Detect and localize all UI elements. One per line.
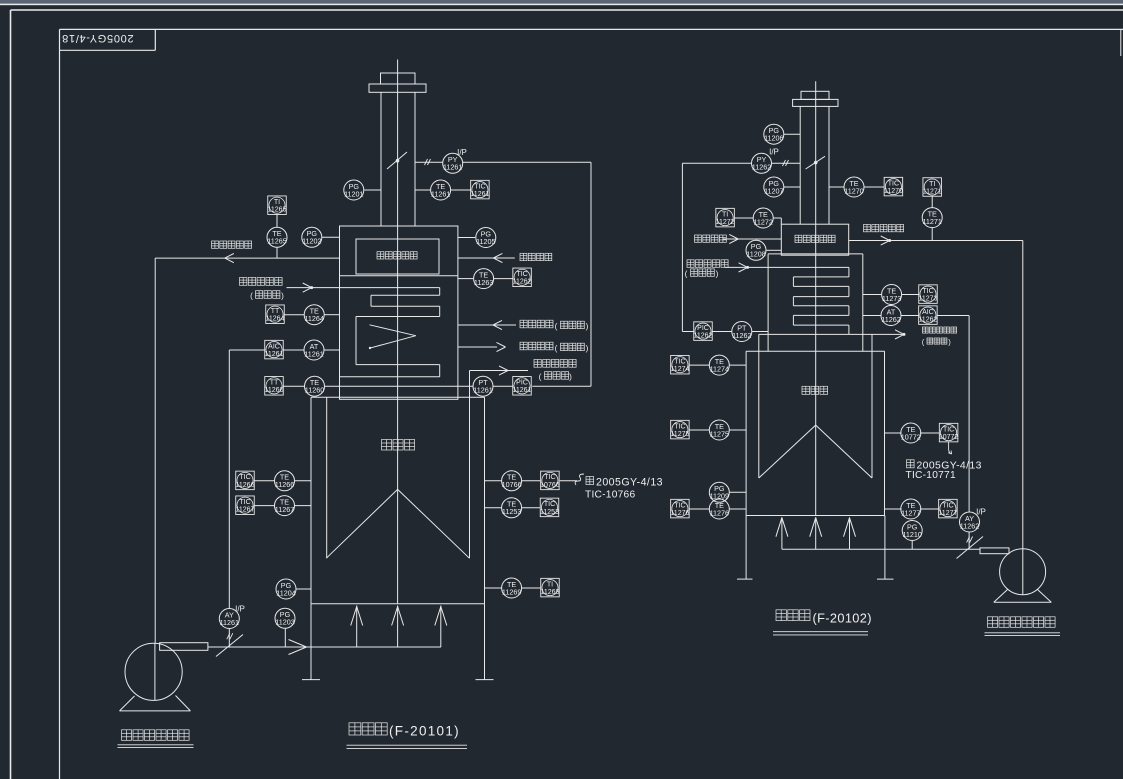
label four passes right outlet: [922, 338, 952, 347]
svg-text:TIC: TIC: [516, 271, 527, 278]
right rows TE-10766/TIC-10766 with note: [485, 474, 585, 485]
PG-11205 line: [458, 237, 475, 239]
svg-text:11262: 11262: [513, 279, 532, 286]
svg-text:11264: 11264: [266, 316, 285, 323]
row TE-11273 / TIC-11273: [863, 294, 919, 296]
instrument TE-11253: [502, 498, 522, 518]
F-20102 radiant box outer walls: [746, 351, 885, 515]
svg-text:2005GY-4/13: 2005GY-4/13: [596, 477, 663, 489]
instrument TI-11272 (panel): [716, 208, 735, 227]
svg-text:11261: 11261: [265, 351, 284, 358]
svg-text:TIC: TIC: [922, 288, 933, 295]
stem TI-11265 to TE-11265: [276, 215, 278, 228]
F-20101 radiant box outer walls: [311, 397, 485, 604]
svg-text:11267: 11267: [236, 507, 255, 514]
svg-text:): ): [586, 344, 589, 353]
row AIC-11261 / AT-11261 with branch to AY-11261: [229, 350, 339, 609]
svg-text:): ): [281, 292, 284, 301]
instrument PIC-11262 (panel): [694, 322, 713, 341]
svg-text:TI: TI: [929, 181, 935, 188]
radiant zigzag coil F-20101: [369, 325, 416, 349]
burner arrows under floor F-20101: [351, 606, 447, 648]
F-20102 convection box: [768, 254, 863, 351]
instrument TI-11265 (panel): [268, 196, 287, 215]
svg-text:11273: 11273: [919, 296, 938, 303]
raw oil outlet pipe arrow right: [470, 366, 529, 375]
svg-text:10766: 10766: [540, 482, 560, 489]
svg-text:11210: 11210: [902, 530, 921, 539]
instrument PT-11261: [473, 376, 493, 396]
svg-text:TIC-10771: TIC-10771: [906, 470, 956, 481]
radiant V flame pattern F-20101: [326, 489, 469, 558]
instrument TE-11266: [275, 471, 295, 491]
F-20101 radiant inner left wall: [326, 397, 328, 558]
label F-20101 fan (chang ya lu yin feng ji): [118, 730, 194, 748]
F-20102 stack flange: [793, 99, 838, 106]
svg-text:11261: 11261: [304, 349, 323, 358]
instrument PG-11205: [476, 228, 496, 248]
svg-text:(: (: [539, 373, 542, 382]
svg-text:11270: 11270: [844, 186, 863, 195]
svg-text:11277: 11277: [938, 510, 957, 517]
svg-text:11262: 11262: [918, 317, 937, 324]
instrument TE-11261: [431, 180, 451, 200]
svg-text:(: (: [685, 270, 688, 279]
svg-text:11276: 11276: [710, 508, 729, 517]
svg-text:11262: 11262: [694, 333, 713, 340]
line stack to TE-11261: [415, 189, 430, 191]
svg-text:(F-20101): (F-20101): [389, 724, 460, 739]
burner air duct under F-20101: [208, 640, 441, 655]
AY-11262 with I/P and control damper: [957, 508, 986, 559]
burner arrows under floor F-20102: [776, 517, 856, 549]
svg-text:11275: 11275: [710, 429, 729, 438]
svg-text:11201: 11201: [344, 189, 363, 198]
svg-text:11261: 11261: [473, 386, 492, 395]
svg-text:11263: 11263: [474, 278, 493, 287]
svg-text:11265: 11265: [267, 237, 286, 246]
svg-text:11266: 11266: [275, 480, 294, 489]
F-20102 inner walls (risers): [759, 334, 872, 478]
svg-text:10772: 10772: [939, 434, 959, 441]
raw oil inlet pipe with arrow: [287, 283, 340, 292]
instrument TE-11260: [305, 376, 325, 396]
steam inlet pipe arrow left: [458, 320, 516, 329]
row TE/TI-11269: [485, 587, 541, 589]
svg-text:11206: 11206: [764, 134, 783, 143]
F-20101 stack walls: [381, 92, 415, 226]
instrument PG-11203: [275, 608, 295, 628]
PG-11209 row: [729, 491, 746, 493]
instrument TIC-11270 (panel): [884, 177, 903, 196]
svg-text:TT: TT: [271, 308, 280, 315]
F-20101 stack cap: [381, 73, 416, 84]
instrument PG-11210: [902, 521, 922, 541]
AY-11261 with I/P and control damper: [216, 605, 245, 657]
line below preheater: [340, 275, 458, 277]
row TIC/TE-11276: [689, 508, 746, 510]
label air preheater (kong qi yu re qi): [377, 252, 417, 259]
instrument TIC-11276 (panel): [670, 499, 689, 517]
instrument PG-11206: [764, 124, 784, 144]
row TE-11270 / TIC-11270: [829, 186, 885, 188]
row TI-11272 / TE-11272: [734, 218, 781, 224]
instrument TIC-11266 (panel): [236, 471, 255, 490]
row TE-11277 / TIC-11277: [885, 508, 939, 510]
svg-text:(: (: [555, 344, 558, 353]
label air inlet right furnace: [695, 235, 727, 242]
F-20101 stack flange: [369, 84, 426, 92]
svg-text:TI: TI: [274, 199, 280, 206]
svg-text:11253: 11253: [502, 507, 521, 516]
svg-text:TIC: TIC: [544, 501, 555, 508]
instrument PG-11207: [764, 177, 784, 197]
instrument TE-11271: [922, 208, 942, 228]
svg-text:): ): [586, 322, 589, 331]
svg-text:TI: TI: [722, 211, 728, 218]
svg-text:2005GY-4/18: 2005GY-4/18: [61, 32, 133, 44]
hot air outlet pipe with left arrow: [155, 254, 339, 263]
instrument AY-11261: [219, 609, 239, 629]
instrument TE-10772: [901, 423, 921, 443]
svg-text:TIC: TIC: [239, 474, 250, 481]
svg-text:11270: 11270: [884, 188, 903, 195]
instrument TE-11277: [901, 499, 921, 519]
raw oil inlet pipe F-20102: [725, 263, 849, 272]
svg-text:11269: 11269: [541, 589, 560, 596]
svg-text:TIC: TIC: [474, 183, 485, 190]
F-20102 support legs and feet: [737, 516, 894, 580]
svg-text:11262: 11262: [881, 315, 900, 324]
instrument TIC-11253 (panel): [540, 498, 559, 517]
svg-text:11261: 11261: [513, 387, 532, 394]
PG-11207 row: [784, 186, 800, 188]
label hot-air outlet (re kong qi chu kou): [212, 241, 252, 248]
instrument PG-11201: [344, 180, 364, 200]
svg-text:11271: 11271: [923, 188, 942, 195]
instrument TE-11275: [709, 420, 729, 440]
air inlet pipe arrow right: [723, 234, 781, 243]
instrument TE-11269: [502, 578, 522, 598]
F-20102 stack cap: [801, 91, 829, 99]
svg-text:PIC: PIC: [516, 380, 528, 387]
svg-text:): ): [716, 270, 719, 279]
fan F-20102 (induced draft fan): [994, 549, 1052, 603]
instrument TIC-11273 (panel): [919, 285, 938, 304]
svg-text:11262: 11262: [732, 331, 751, 340]
svg-text:11262: 11262: [960, 521, 979, 530]
instrument AT-11262: [881, 306, 901, 326]
svg-text:TIC: TIC: [674, 502, 685, 509]
svg-text:11267: 11267: [275, 505, 294, 514]
svg-text:I/P: I/P: [769, 148, 779, 157]
line TE-11263 row: [458, 278, 473, 280]
row TT-11260 / TE-11260 to PT-11261: [283, 385, 473, 387]
PG-11204 row bottom left: [297, 588, 312, 590]
svg-text:TIC: TIC: [888, 180, 899, 187]
svg-text:11205: 11205: [476, 237, 495, 246]
F-20101 stack damper: [387, 152, 407, 169]
label air inlet (kong qi ru kou): [520, 253, 552, 260]
F-20101 convection box: [340, 226, 458, 399]
burner air duct under F-20102: [782, 548, 980, 550]
svg-text:TIC-10766: TIC-10766: [585, 490, 635, 501]
F-20102 stack damper: [806, 156, 825, 169]
PT-11262 / PIC-11262 row: [712, 331, 768, 333]
duct down to fan F-20101: [154, 258, 156, 643]
instrument TE-11273: [882, 285, 902, 305]
instrument AIC-11261 (panel): [265, 340, 284, 359]
svg-text:TIC: TIC: [674, 359, 685, 366]
label steam inlet (one pass): [520, 320, 589, 331]
note line 1: to 2005GY-4/13: [586, 477, 663, 489]
raw oil outlet pipe arrow right F-20102: [872, 330, 906, 339]
label (four passes): [250, 291, 284, 301]
instrument TIC-11277 (panel): [938, 499, 957, 517]
instrument PY-11261: [443, 153, 463, 173]
fan F-20101 (induced draft fan): [120, 643, 191, 711]
svg-text:(F-20102): (F-20102): [813, 611, 872, 626]
svg-text:11274: 11274: [670, 366, 689, 373]
svg-text:PIC: PIC: [697, 325, 709, 332]
instrument TIC-11274 (panel): [670, 355, 689, 374]
instrument PT-11262: [732, 322, 752, 342]
oil outlet riser / inner right wall F-20101: [469, 371, 471, 559]
svg-text:11271: 11271: [922, 217, 941, 226]
coil serpentine F-20102: [793, 267, 849, 334]
svg-text:TI: TI: [547, 581, 553, 588]
svg-text:11207: 11207: [764, 186, 783, 195]
instrument TE-11264: [304, 305, 324, 325]
svg-text:11272: 11272: [753, 217, 772, 226]
PT-11261 / PIC-11261 row: [493, 385, 512, 387]
svg-text:11261: 11261: [470, 191, 489, 198]
instrument TE-11272: [753, 208, 773, 228]
air preheater box F-20101: [356, 239, 439, 274]
line PG-11202 to convection box: [322, 236, 340, 238]
instrument TIC-11267 (panel): [236, 496, 255, 515]
label furnace title chang ya lu (F-20101): [347, 723, 468, 749]
instrument TE-10766: [502, 471, 522, 491]
F-20102 stack walls: [800, 106, 829, 224]
instrument PIC-11261 (panel): [513, 377, 532, 396]
svg-text:11273: 11273: [882, 294, 901, 303]
instrument TIC-10766 (panel): [540, 471, 560, 490]
radiant V flame pattern F-20102: [759, 425, 872, 478]
instrument TT-11264 (panel): [266, 305, 285, 324]
PG-11206 row: [784, 133, 800, 135]
svg-text:11272: 11272: [716, 219, 735, 226]
svg-text:AIC: AIC: [922, 309, 934, 316]
instrument AY-11262: [960, 512, 980, 532]
label steam outlet (one pass): [520, 342, 589, 353]
label raw oil outlet (four passes): [534, 360, 576, 382]
line TE-11263 to TIC-11262: [494, 278, 513, 280]
hook arrow below TIC-10772: [949, 442, 952, 454]
instrument PG-11208: [746, 240, 766, 260]
hot air outlet pipe to fan F-20102: [849, 236, 1023, 549]
instrument PG-11204: [276, 579, 296, 599]
svg-text:): ): [569, 373, 572, 382]
row TE/TIC-11253: [485, 507, 541, 509]
svg-text:(: (: [555, 322, 558, 331]
svg-text:11208: 11208: [746, 250, 765, 259]
label F-20102 fan (jian ya lu yin feng ji): [985, 617, 1061, 636]
row TT-11264 / TE-11264: [284, 314, 339, 316]
label furnace name (chang ya lu): [382, 440, 415, 451]
svg-text:(: (: [250, 292, 253, 301]
svg-text:11266: 11266: [236, 482, 255, 489]
label raw oil outlet right furnace: [923, 327, 957, 333]
instrument TE-11267: [275, 496, 295, 516]
left rows TIC/TE-11266 11267: [254, 481, 311, 506]
label furnace title jian ya lu (F-20102): [773, 610, 872, 635]
note line 1 right: to 2005GY-4/13: [907, 460, 982, 472]
svg-text:11264: 11264: [304, 314, 323, 323]
label hot-air outlet right furnace: [864, 225, 904, 232]
svg-text:11204: 11204: [276, 588, 295, 597]
svg-text:TIC: TIC: [239, 499, 250, 506]
svg-text:10766: 10766: [502, 480, 522, 489]
signal line PY-11261 to PIC-11261: [463, 162, 591, 386]
svg-text:11275: 11275: [670, 431, 689, 438]
instrument TE-11274: [709, 355, 729, 375]
steam outlet pipe arrow right: [458, 342, 506, 351]
svg-text:11265: 11265: [268, 207, 287, 214]
PG-11208 row: [766, 249, 782, 251]
label raw oil inlet: [240, 278, 283, 286]
svg-text:TIC: TIC: [943, 426, 954, 433]
svg-text:11276: 11276: [670, 510, 689, 517]
instrument TIC-11262 (panel): [513, 268, 532, 287]
svg-text:TIC: TIC: [544, 474, 555, 481]
svg-text:11202: 11202: [302, 237, 321, 246]
svg-text:TIC: TIC: [674, 423, 685, 430]
svg-text:11260: 11260: [265, 387, 284, 394]
oil transfer line to radiant F-20102: [759, 333, 872, 335]
svg-text:11269: 11269: [502, 587, 521, 596]
svg-text:11261: 11261: [220, 618, 239, 627]
label air preheater F-20102: [795, 235, 835, 242]
instrument TE-11265: [267, 227, 287, 247]
fan outlet nozzle: [160, 643, 208, 651]
svg-text:11253: 11253: [540, 509, 559, 516]
instrument TT-11260 (panel): [265, 377, 284, 396]
instrument TI-11271 (panel): [923, 178, 942, 197]
row AT-11262 / AIC-11262 with branch to AY-11262: [863, 316, 969, 513]
svg-text:TIC: TIC: [942, 502, 953, 509]
instrument TE-11263: [474, 269, 494, 289]
svg-text:AIC: AIC: [268, 343, 280, 350]
fan inlet nozzle F-20102: [980, 548, 1009, 554]
svg-text:I/P: I/P: [457, 148, 467, 157]
instrument PG-11202: [302, 227, 322, 247]
svg-text:11261: 11261: [431, 189, 450, 198]
air preheater box F-20102: [781, 224, 848, 255]
svg-text:11277: 11277: [901, 508, 920, 517]
F-20101 support legs and feet: [302, 604, 494, 680]
instrument TE-11276: [709, 499, 729, 519]
row TE-10772 / TIC-10772 with note: [885, 432, 940, 434]
svg-text:TT: TT: [270, 380, 279, 387]
label furnace name (jian ya lu): [802, 386, 828, 394]
signal line PY-11262 to PIC-11262: [682, 163, 751, 331]
svg-text:11260: 11260: [305, 386, 324, 395]
stem TE-11265 to hot air line: [276, 248, 278, 259]
window top gray strip: [0, 0, 1123, 4]
instrument TI-11269 (panel): [541, 578, 560, 597]
instrument TIC-11275 (panel): [670, 420, 689, 439]
label raw oil inlet right furnace: [687, 260, 728, 268]
instrument TIC-10772 (panel): [939, 423, 959, 442]
svg-text:11261: 11261: [443, 163, 462, 172]
pressure tap line PG-11201: [364, 189, 381, 191]
svg-text:I/P: I/P: [976, 508, 986, 517]
F-20102 stack centerline: [815, 81, 817, 515]
coil serpentine (convection) F-20101: [340, 288, 440, 377]
label four passes right furnace: [685, 269, 719, 279]
instrument TIC-11261 (panel): [470, 180, 489, 199]
instrument TE-11270: [844, 177, 864, 197]
F-20101 stack centerline: [397, 60, 399, 604]
instrument AT-11261: [304, 340, 324, 360]
signal line damper to PY-11261: [415, 159, 443, 165]
instrument PY-11262: [752, 153, 772, 173]
air inlet pipe with left arrow: [458, 253, 515, 262]
svg-text:11274: 11274: [710, 365, 729, 374]
instrument PG-11209: [709, 482, 729, 502]
line TE-11261 to TIC-11261: [451, 189, 471, 191]
signal line PY-11262 to damper: [772, 160, 800, 166]
svg-text:11203: 11203: [275, 618, 294, 627]
svg-text:10772: 10772: [901, 432, 921, 441]
svg-text:11262: 11262: [752, 163, 771, 172]
left rows TIC/TE-11274 11275: [689, 365, 746, 430]
instrument AIC-11262 (panel): [918, 306, 937, 325]
